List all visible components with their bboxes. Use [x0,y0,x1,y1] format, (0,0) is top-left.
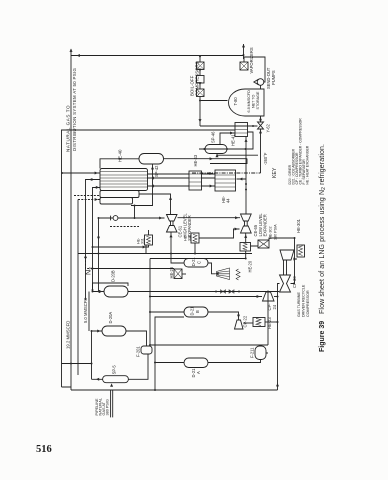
svg-text:DRIVEN RECYCLE: DRIVEN RECYCLE [302,284,306,317]
heat exchanger HE-300 coil [240,243,251,252]
svg-text:19.2 MMSCFD: 19.2 MMSCFD [65,321,70,349]
wire: pipeline feed double pipe [111,390,113,418]
wire: HE-302 stub [199,229,258,246]
absorber D-21 B [184,307,208,317]
wire: D-21C top riser [171,254,184,264]
wire: CE-65 inlet [245,233,247,259]
svg-text:Figure 39: Figure 39 [319,321,326,352]
svg-text:EXPANDER: EXPANDER [187,215,192,237]
svg-text:DISTRIBUTION SYSTEM AT 50 PSIG: DISTRIBUTION SYSTEM AT 50 PSIG [72,67,77,151]
svg-text:-260°F: -260°F [263,152,268,165]
svg-text:F-211: F-211 [250,347,255,358]
wire: SP-5 to F-201 [128,354,148,379]
wire: dashed drop into HE-40 block2 [78,199,100,201]
heat exchanger HE-40 [100,169,148,191]
separator SP-42 [139,154,164,165]
wire: F-201 to D-20A [126,331,147,346]
wire: D-21A bottom to F-211 [208,360,261,363]
svg-text:HE-41: HE-41 [231,134,236,146]
heat exchanger HE-43 [189,171,202,190]
svg-text:516: 516 [36,444,52,455]
wire: -260F boundary [192,172,261,174]
svg-text:D-21: D-21 [190,306,195,316]
wire: y268 link [266,292,268,354]
wire: y155 link [155,317,184,390]
gas turbine driver [280,250,294,260]
svg-text:380 PSIA: 380 PSIA [273,224,277,240]
wire: main cold bus V5 [150,258,246,260]
wire: boil-off return through HE-41 [200,125,258,127]
wire: SP-42 bottom into HE-44 [164,158,248,160]
absorber D-21 C [184,259,208,268]
wire: CP-30 discharge loop [269,238,297,284]
wire: N2 makeup with valve [99,218,165,292]
boil-off compressor 1 [197,89,205,97]
heat exchanger HE-311 [145,235,153,245]
wire: instrument dashed line [110,226,139,228]
svg-text:HE-20: HE-20 [248,260,253,272]
svg-text:GAS TURBINE: GAS TURBINE [297,292,301,317]
svg-text:B: B [195,310,200,313]
expander CE-61 [167,215,178,233]
turbine air fan [217,268,230,280]
svg-text:HE-302: HE-302 [269,226,273,239]
svg-text:D-21: D-21 [191,257,196,267]
wire: HE-43 to HE-44 passes [202,174,216,186]
svg-text:44: 44 [226,198,231,203]
wire: bus crosslink [62,363,92,365]
heat exchanger HE-44 [215,170,236,191]
wire: HE-40 to HE-43 passes [148,174,190,186]
svg-text:CP-22: CP-22 [243,315,248,327]
N2 bus valve 2 [229,290,234,293]
svg-text:CP-30: CP-30 [292,276,297,288]
svg-text:SP-5: SP-5 [111,365,116,375]
makeup control valve [113,216,118,221]
svg-text:380 PSIG: 380 PSIG [105,399,109,416]
wire: D-21B bottom to CP-22 [208,312,239,320]
wire: 5.0 MMSCFD line into D-20B [89,283,128,331]
svg-text:D-20A: D-20A [108,312,113,324]
wire: bus into HE-26 [93,268,175,270]
wire: HE-311 feed [93,230,149,254]
separator F-201 [141,346,152,354]
heat exchanger HE-301 [297,245,305,257]
wire: LNG rundown line with Y-62 [260,116,262,173]
wire: CE-61 to CE-65 series [178,217,241,219]
svg-text:HE-26: HE-26 [169,266,174,278]
compressor CP-24 [263,292,275,301]
storage tank T-80 [229,89,265,116]
wire: CE-61 outlet to HE-40 block3 [139,194,171,215]
rotated landscape diagram group: land (x,y) -> page (y, 480-x) [61,44,327,417]
svg-text:SP-42: SP-42 [154,165,159,177]
wire: tank to pump [260,85,262,89]
wire: N2 bus through D-20B down to CP-30 [128,291,279,293]
svg-text:HE-23: HE-23 [267,317,272,329]
svg-text:HE-43: HE-43 [193,154,198,166]
svg-text:NATURAL GAS TO: NATURAL GAS TO [66,105,71,152]
drier D-20B [104,286,128,297]
wire: D-21A top riser [155,362,184,364]
wire: main cold bus V4 [78,253,252,255]
wire: SP-5 overhead to D-20A [92,331,103,379]
wire: D-21B top riser [150,311,184,313]
wire: natural gas distribution top bus [71,49,244,390]
heat exchanger HE-312 [191,233,199,243]
svg-text:EXPANDER: EXPANDER [262,214,267,236]
separator SP-5 [103,376,129,383]
valve Y-62 [258,122,264,129]
svg-text:HE-301: HE-301 [296,218,301,233]
svg-text:Y-62: Y-62 [266,124,271,133]
svg-text:5.0 MMSCFD: 5.0 MMSCFD [83,298,88,323]
N2 bus valve 1 [221,290,226,293]
wire: bottom feed to CP-30 [278,284,280,391]
svg-text:311: 311 [141,238,145,244]
wire: CE-65 outlet to HE-41 [245,137,247,215]
svg-text:VAPORIZERS: VAPORIZERS [249,47,254,73]
wire: left bus [71,389,278,391]
wire: SP-46 to HE-41 top [220,133,235,145]
recycle compressor CP-30 [280,275,291,292]
svg-text:T-80: T-80 [233,97,238,106]
wire: CP-24 down [274,296,278,298]
expander CE-65 [241,214,252,233]
drier D-20A [102,326,126,336]
wire: CE-61 inlet [170,232,172,254]
svg-text:PUMPS: PUMPS [271,70,276,85]
wire: send-out exit [243,44,245,59]
wire: boil-off compressor rail [199,55,201,126]
separator SP-46 [205,145,227,154]
wire: HE-23 down [265,321,278,323]
wire: second bus (natural gas feed to HE-41) [62,130,236,387]
heat exchanger HE-302 [258,240,269,248]
wire: SP-42 top loop [100,159,139,169]
vaporizer [240,62,248,70]
svg-text:COMPRESSOR: COMPRESSOR [306,290,310,317]
wire: D-21C bottom to turbine fan [208,263,216,274]
svg-text:STORAGE: STORAGE [256,91,260,110]
wire: bus V8 into F-211 [150,344,268,346]
wire: y150 line [149,259,151,346]
wire: HE-26 bottom stub [182,273,186,275]
separator F-211 [255,346,266,360]
wire: pump to vaporizer riser [244,57,266,82]
svg-text:D-20B: D-20B [111,270,116,282]
svg-text:HE : HEAT EXCHANGER: HE : HEAT EXCHANGER [306,145,310,184]
svg-text:C: C [197,261,202,264]
wire: HE-40 block3 outlet to SP-42 [131,164,153,218]
wire: N2 makeup dashed [86,257,93,269]
svg-text:SP-46: SP-46 [211,131,216,143]
wire: boil-off from tank [200,100,228,102]
heater HE-20 [236,269,240,280]
svg-text:24: 24 [272,304,277,309]
wire: turbine shaft [284,260,287,275]
heat exchanger HE-41 [235,123,248,137]
heat exchanger HE-23 [253,318,265,327]
wire: HE-312 link [194,243,196,254]
wire: N2 bus into HE-40 [93,188,101,292]
svg-text:Flow sheet of an LNG process u: Flow sheet of an LNG process using N2 re… [319,144,327,314]
wire: bus y78 [77,200,79,376]
send-out pump [257,79,264,86]
svg-text:COMPRESSORS: COMPRESSORS [194,61,199,96]
svg-text:A: A [196,371,201,374]
compressor CP-22 [235,320,244,329]
wire: dashed drop 2 into HE-40 [74,195,100,197]
svg-text:KEY: KEY [272,167,278,178]
intercooler [197,76,205,84]
wire: SP-46 column [199,132,253,149]
svg-text:NET TO: NET TO [252,95,256,108]
svg-text:HE-40: HE-40 [118,149,123,162]
wire: CP-24 riser [150,296,262,298]
heat exchanger HE-26 [174,269,182,279]
wire: branch bus62 into HE-40 [62,172,100,174]
svg-text:F-201: F-201 [136,346,141,357]
wire: HE-44 bottom stubs [210,154,258,180]
wire: CP-22 to HE-23 [244,322,254,324]
boil-off compressor 2 [197,62,205,70]
absorber D-21 A [184,358,208,368]
wire: bus y85 into HE-40 [86,180,101,301]
svg-text:6.8 MMSCFD: 6.8 MMSCFD [247,90,251,113]
